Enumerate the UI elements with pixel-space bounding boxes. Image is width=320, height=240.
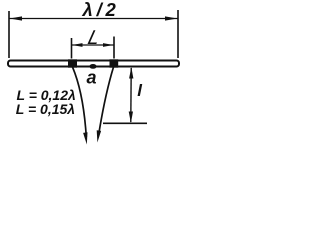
left delta-match wire — [73, 67, 87, 137]
left wire arrowhead — [83, 132, 87, 144]
svg-text:λ/2: λ/2 — [82, 0, 120, 20]
svg-text:a: a — [87, 68, 97, 88]
lambda/2 dimension line — [10, 18, 178, 20]
dipole element bar — [8, 61, 179, 67]
l dimension top arrowhead — [129, 67, 133, 79]
L dimension right arrowhead — [103, 43, 114, 47]
right delta-match wire — [99, 67, 114, 135]
right wire arrowhead — [97, 130, 101, 142]
svg-text:L = 0,15λ: L = 0,15λ — [16, 101, 75, 117]
left feed tap square — [68, 59, 77, 67]
L dimension: right tick — [113, 37, 115, 59]
right feed tap square — [110, 59, 119, 67]
lambda/2 dimension: right extension line — [177, 10, 179, 58]
l dimension bottom arrowhead — [129, 112, 133, 124]
lambda/2 dimension: left extension line — [8, 11, 10, 58]
L dimension: left tick — [71, 38, 73, 59]
l dimension vertical line — [130, 68, 132, 122]
L label — [86, 27, 103, 49]
lambda/2 right arrowhead — [165, 16, 178, 20]
center feed dot — [89, 64, 96, 69]
L dimension line — [72, 44, 114, 46]
l dimension bottom tick line — [103, 122, 147, 124]
L dimension left arrowhead — [72, 43, 83, 47]
lambda/2 left arrowhead — [10, 16, 23, 20]
